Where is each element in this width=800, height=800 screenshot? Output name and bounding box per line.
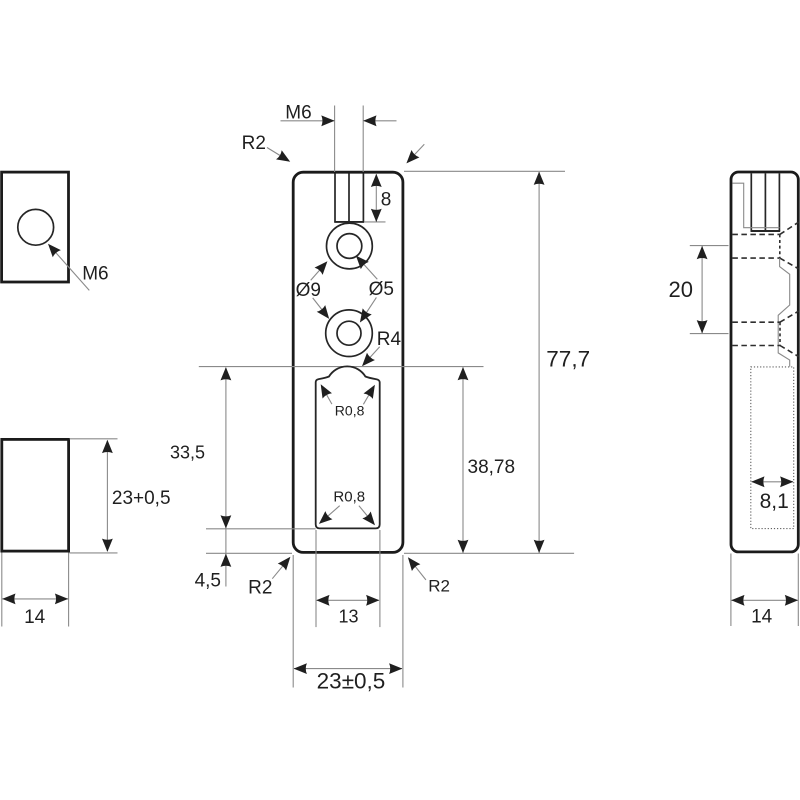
svg-text:R4: R4 bbox=[377, 329, 402, 350]
extension lines below side view bbox=[730, 554, 732, 627]
top view outline bbox=[2, 172, 69, 282]
hidden dashed diagonal D1 bbox=[780, 222, 799, 234]
leader Ø9 to hole 2 bbox=[313, 298, 328, 317]
leader R0,8 upper-right corner bbox=[363, 388, 373, 405]
M6 tapped hole circle bbox=[18, 209, 54, 245]
leader Ø9 to hole 1 bbox=[311, 263, 326, 280]
svg-text:38,78: 38,78 bbox=[468, 457, 516, 478]
svg-text:R0,8: R0,8 bbox=[335, 403, 365, 419]
leader R2 bottom left bbox=[272, 559, 288, 578]
hidden dashed line H1 bbox=[732, 233, 779, 235]
thin thread relief line (L shape) bbox=[732, 183, 779, 228]
extension line slot bottom to left bbox=[206, 528, 316, 530]
dimension 14 line (left view) bbox=[2, 598, 68, 600]
dotted recess rectangle bbox=[751, 367, 794, 529]
svg-text:M6: M6 bbox=[285, 103, 311, 124]
dimension 14 line (side view) bbox=[732, 599, 798, 601]
svg-text:8,1: 8,1 bbox=[760, 490, 789, 513]
hidden dashed vertical V1 bbox=[779, 234, 781, 258]
leader Ø5 to hole 2 bbox=[362, 297, 377, 320]
svg-text:R2: R2 bbox=[242, 133, 266, 154]
svg-text:8: 8 bbox=[381, 190, 392, 211]
dimension 13 line bbox=[317, 599, 379, 601]
dimension 8 line bbox=[375, 174, 377, 221]
M6 slot bottom line bbox=[334, 221, 364, 223]
extension line top right for 77,7 bbox=[404, 170, 565, 172]
svg-text:Ø5: Ø5 bbox=[369, 279, 394, 300]
extension line bottom right bbox=[404, 552, 574, 554]
extension lines left for 20 bbox=[690, 245, 729, 247]
dimension 33,5 / 4,5 vertical line bbox=[225, 368, 227, 587]
leader R2 top left bbox=[267, 148, 288, 161]
dimension 8,1 line bbox=[752, 481, 793, 483]
svg-text:Ø9: Ø9 bbox=[296, 280, 321, 301]
hole 1 inner circle Ø5 bbox=[337, 234, 362, 259]
end view outline bbox=[2, 439, 69, 551]
svg-text:R0,8: R0,8 bbox=[333, 488, 365, 505]
side slot line 2 bbox=[764, 173, 766, 231]
dimension 77,7 line bbox=[538, 172, 540, 553]
leader R0,8 lower-left corner bbox=[321, 506, 340, 522]
dimension M6 line right part bbox=[363, 120, 396, 122]
hole 1 outer circle Ø9 bbox=[327, 223, 373, 269]
svg-text:77,7: 77,7 bbox=[546, 347, 590, 372]
dimension 38,78 line bbox=[462, 367, 464, 552]
svg-text:20: 20 bbox=[669, 277, 693, 302]
extension lines above for M6 bbox=[334, 106, 336, 173]
side slot line 1 bbox=[750, 173, 752, 231]
leader M6 (top view) bbox=[54, 250, 90, 290]
keyhole slot outline bbox=[316, 366, 380, 528]
svg-text:4,5: 4,5 bbox=[195, 571, 221, 592]
leader R2 bottom right bbox=[410, 560, 426, 580]
M6 slot left line bbox=[334, 174, 336, 222]
svg-text:R2: R2 bbox=[428, 577, 450, 596]
leader R0,8 upper-left corner bbox=[322, 387, 332, 404]
extension lines below end view bbox=[1, 553, 3, 627]
dimension M6 line left part bbox=[281, 120, 335, 122]
svg-text:33,5: 33,5 bbox=[170, 443, 205, 463]
dimension 23±0,5 line bbox=[294, 668, 402, 670]
extension line part bottom to left bbox=[206, 552, 292, 554]
hole 2 outer circle Ø9 bbox=[326, 310, 373, 357]
hidden dashed line H2 bbox=[732, 257, 779, 259]
hidden dashed diagonal D2 bbox=[780, 258, 799, 269]
side slot bottom line bbox=[751, 230, 781, 232]
svg-text:R2: R2 bbox=[248, 578, 272, 599]
svg-text:13: 13 bbox=[338, 606, 358, 626]
leader arrow top right corner bbox=[408, 144, 424, 161]
svg-text:14: 14 bbox=[751, 607, 773, 628]
svg-text:23±0,5: 23±0,5 bbox=[317, 668, 386, 693]
extension line bottom right bbox=[70, 552, 118, 554]
leader Ø5 to hole 1 bbox=[358, 258, 378, 280]
M6 slot right line bbox=[362, 174, 364, 222]
extension line through bump top bbox=[199, 366, 484, 368]
thin visible zigzag recess profile bbox=[778, 258, 790, 366]
leader R4 to slot bump bbox=[364, 347, 380, 364]
hidden dashed vertical V2 bbox=[779, 322, 781, 345]
dimension 23+0,5 line bbox=[106, 441, 108, 552]
svg-text:14: 14 bbox=[24, 607, 46, 628]
M6 slot middle line bbox=[348, 174, 350, 222]
extension lines below slot for 13 bbox=[315, 530, 317, 627]
hidden dashed diagonal D4 bbox=[780, 346, 799, 357]
hole 2 inner circle Ø5 bbox=[337, 321, 361, 345]
front outline rounded rect R2 bbox=[293, 172, 403, 552]
side view outline bbox=[731, 172, 798, 552]
hidden dashed line H4 bbox=[732, 345, 780, 347]
svg-text:M6: M6 bbox=[82, 264, 108, 285]
extension lines below part for 23±0,5 bbox=[292, 555, 294, 688]
dimension 20 line bbox=[701, 246, 703, 333]
hidden dashed diagonal D3 bbox=[780, 311, 799, 322]
extension line top right bbox=[70, 438, 118, 440]
svg-text:23+0,5: 23+0,5 bbox=[112, 488, 171, 509]
hidden dashed line H3 bbox=[732, 321, 780, 323]
leader R0,8 lower-right corner bbox=[359, 506, 373, 523]
side slot line 3 bbox=[778, 173, 780, 231]
extension line right of slot bottom bbox=[364, 221, 385, 223]
